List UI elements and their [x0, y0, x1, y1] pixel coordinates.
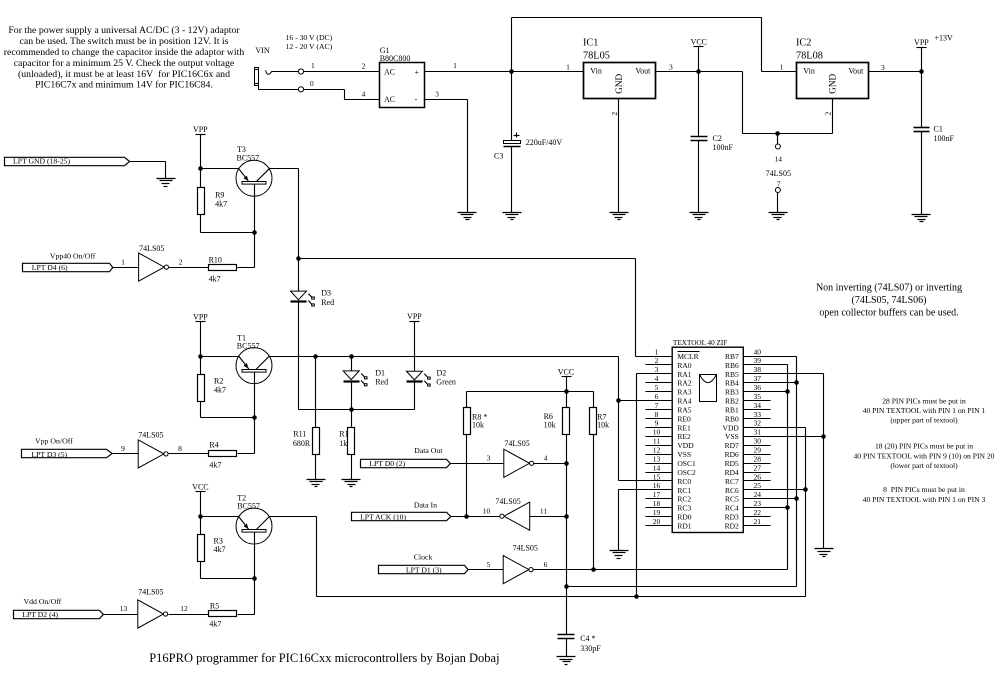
svg-text:4: 4: [544, 454, 548, 463]
svg-text:VPP: VPP: [407, 312, 422, 321]
svg-text:Non inverting (74LS07) or inve: Non inverting (74LS07) or inverting: [816, 283, 962, 294]
svg-text:2: 2: [179, 257, 183, 266]
svg-text:3: 3: [487, 454, 491, 463]
svg-text:LPT D2 (4): LPT D2 (4): [22, 610, 58, 619]
svg-text:78L05: 78L05: [583, 50, 610, 61]
svg-text:4k7: 4k7: [209, 275, 221, 284]
svg-text:9: 9: [121, 444, 125, 453]
svg-text:RA0: RA0: [677, 361, 691, 370]
svg-text:(lower part of textool): (lower part of textool): [890, 461, 958, 470]
svg-text:RD6: RD6: [725, 450, 739, 459]
svg-text:R11: R11: [293, 430, 306, 439]
svg-text:22: 22: [754, 508, 762, 517]
svg-text:(upper part of textool): (upper part of textool): [890, 416, 958, 425]
svg-text:40 PIN TEXTOOL with PIN 1 on P: 40 PIN TEXTOOL with PIN 1 on PIN 1: [863, 406, 986, 415]
svg-text:BC557: BC557: [237, 153, 260, 162]
svg-text:4k7: 4k7: [214, 386, 226, 395]
svg-text:37: 37: [754, 374, 762, 383]
svg-text:Data Out: Data Out: [414, 446, 443, 455]
svg-text:7: 7: [655, 401, 659, 410]
svg-text:RC3: RC3: [677, 504, 691, 513]
svg-text:12: 12: [653, 445, 661, 454]
svg-text:RD4: RD4: [725, 468, 739, 477]
svg-text:17: 17: [653, 490, 661, 499]
svg-text:16: 16: [653, 481, 661, 490]
svg-text:VCC: VCC: [192, 482, 208, 491]
svg-text:35: 35: [754, 392, 762, 401]
svg-text:VCC: VCC: [691, 37, 707, 46]
svg-text:GND: GND: [615, 73, 625, 93]
svg-text:VPP: VPP: [193, 125, 208, 134]
svg-text:Vdd On/Off: Vdd On/Off: [24, 597, 62, 606]
svg-text:MCLR: MCLR: [677, 352, 698, 361]
svg-text:recommended to change the capa: recommended to change the capacitor insi…: [4, 47, 245, 58]
svg-text:30: 30: [754, 437, 762, 446]
svg-text:11: 11: [653, 437, 660, 446]
svg-text:8: 8: [655, 410, 659, 419]
svg-text:100nF: 100nF: [713, 143, 734, 152]
svg-text:1k: 1k: [339, 439, 347, 448]
svg-text:31: 31: [754, 428, 762, 437]
svg-text:VPP: VPP: [193, 312, 208, 321]
svg-text:18 (20) PIN PICs must be put i: 18 (20) PIN PICs must be put in: [875, 442, 973, 451]
svg-text:RB3: RB3: [725, 388, 739, 397]
svg-text:VSS: VSS: [725, 432, 739, 441]
svg-text:LPT D1 (3): LPT D1 (3): [406, 566, 442, 575]
svg-text:21: 21: [754, 517, 762, 526]
svg-text:TEXTOOL 40 ZIF: TEXTOOL 40 ZIF: [673, 339, 727, 347]
svg-text:C3: C3: [494, 152, 503, 161]
svg-text:24: 24: [754, 490, 762, 499]
svg-text:RD0: RD0: [677, 513, 691, 522]
svg-text:3: 3: [435, 89, 439, 98]
svg-text:4: 4: [362, 89, 366, 98]
svg-text:78L08: 78L08: [796, 50, 823, 61]
svg-text:18: 18: [653, 499, 661, 508]
svg-text:28: 28: [754, 454, 762, 463]
svg-text:2: 2: [610, 112, 619, 116]
svg-text:RE2: RE2: [677, 432, 691, 441]
svg-text:D2: D2: [437, 368, 447, 377]
svg-text:2: 2: [824, 112, 833, 116]
svg-text:10: 10: [653, 428, 661, 437]
svg-text:7: 7: [777, 179, 781, 188]
svg-text:27: 27: [754, 463, 762, 472]
svg-text:4k7: 4k7: [214, 545, 226, 554]
svg-text:R5: R5: [210, 602, 219, 611]
svg-text:36: 36: [754, 383, 762, 392]
svg-text:R9: R9: [215, 191, 224, 200]
svg-text:13: 13: [120, 604, 128, 613]
svg-text:B80C800: B80C800: [380, 54, 411, 63]
svg-text:RB5: RB5: [725, 370, 739, 379]
svg-text:1: 1: [780, 63, 784, 72]
svg-text:R1: R1: [339, 430, 348, 439]
svg-text:3: 3: [881, 63, 885, 72]
svg-text:RB4: RB4: [725, 379, 739, 388]
svg-text:BC557: BC557: [237, 341, 260, 350]
svg-text:Data In: Data In: [414, 500, 437, 509]
svg-text:RB1: RB1: [725, 405, 739, 414]
svg-text:3: 3: [655, 365, 659, 374]
svg-text:can be used. The switch must b: can be used. The switch must be in posit…: [20, 36, 229, 47]
svg-text:38: 38: [754, 365, 762, 374]
svg-text:8 PIN PICs must be put in: 8 PIN PICs must be put in: [883, 485, 965, 494]
svg-text:4k7: 4k7: [209, 461, 221, 470]
svg-text:PIC16C7x and minimum 14V for P: PIC16C7x and minimum 14V for PIC16C84.: [35, 80, 213, 91]
svg-text:40: 40: [754, 347, 762, 356]
svg-text:6: 6: [655, 392, 659, 401]
svg-text:4k7: 4k7: [215, 200, 227, 209]
svg-text:Clock: Clock: [414, 553, 433, 562]
svg-text:10k: 10k: [472, 421, 484, 430]
svg-text:6: 6: [544, 560, 548, 569]
svg-text:220uF/40V: 220uF/40V: [526, 138, 563, 147]
svg-text:VCC: VCC: [558, 368, 574, 377]
svg-text:AC: AC: [384, 95, 395, 104]
svg-text:8: 8: [178, 444, 182, 453]
svg-text:LPT D4 (6): LPT D4 (6): [32, 263, 68, 272]
svg-text:RB0: RB0: [725, 414, 739, 423]
svg-text:10k: 10k: [544, 421, 556, 430]
svg-text:D3: D3: [321, 289, 331, 298]
svg-text:VDD: VDD: [677, 441, 694, 450]
svg-text:RD1: RD1: [677, 521, 691, 530]
svg-text:34: 34: [754, 401, 762, 410]
svg-text:74LS05: 74LS05: [513, 543, 538, 552]
svg-text:RB7: RB7: [725, 352, 739, 361]
svg-text:RC7: RC7: [725, 477, 739, 486]
svg-text:12: 12: [180, 604, 188, 613]
svg-text:RC5: RC5: [725, 495, 739, 504]
svg-text:16 - 30 V (DC): 16 - 30 V (DC): [286, 33, 333, 42]
svg-text:Vin: Vin: [590, 66, 602, 75]
svg-text:1: 1: [121, 257, 125, 266]
svg-text:15: 15: [653, 472, 661, 481]
svg-text:R10: R10: [209, 255, 222, 264]
svg-text:74LS05: 74LS05: [138, 588, 163, 597]
svg-text:Vin: Vin: [803, 66, 815, 75]
svg-text:-: -: [415, 95, 418, 104]
svg-text:3: 3: [669, 63, 673, 72]
svg-text:10k: 10k: [597, 421, 609, 430]
svg-text:(74LS05, 74LS06): (74LS05, 74LS06): [852, 295, 927, 306]
svg-text:40 PIN TEXTOOL with PIN 9 (10): 40 PIN TEXTOOL with PIN 9 (10) on PIN 20: [854, 451, 995, 460]
svg-text:RE1: RE1: [677, 423, 691, 432]
svg-text:39: 39: [754, 356, 762, 365]
svg-text:9: 9: [655, 419, 659, 428]
svg-text:OSC2: OSC2: [677, 468, 696, 477]
svg-text:VSS: VSS: [677, 450, 691, 459]
svg-text:C2: C2: [713, 134, 722, 143]
svg-text:+13V: +13V: [935, 34, 954, 43]
svg-text:74LS05: 74LS05: [138, 430, 163, 439]
svg-text:open collector buffers can be: open collector buffers can be used.: [819, 308, 958, 319]
svg-text:IC2: IC2: [796, 38, 811, 49]
svg-text:74LS05: 74LS05: [139, 244, 164, 253]
svg-text:1: 1: [655, 347, 659, 356]
svg-text:12 - 20 V (AC): 12 - 20 V (AC): [286, 42, 333, 51]
svg-text:RD2: RD2: [725, 521, 739, 530]
svg-text:19: 19: [653, 508, 661, 517]
svg-text:74LS05: 74LS05: [766, 169, 791, 178]
svg-text:2: 2: [655, 356, 659, 365]
svg-text:14: 14: [775, 155, 783, 164]
svg-text:C1: C1: [934, 125, 943, 134]
svg-text:Red: Red: [375, 378, 388, 387]
svg-text:Vout: Vout: [635, 66, 651, 75]
svg-text:RD7: RD7: [725, 441, 739, 450]
svg-text:C4 *: C4 *: [580, 634, 595, 643]
svg-text:RA5: RA5: [677, 405, 691, 414]
svg-text:(unloaded), it must be at leas: (unloaded), it must be at least 16V for …: [18, 69, 230, 80]
svg-text:26: 26: [754, 472, 762, 481]
svg-text:VDD: VDD: [723, 423, 740, 432]
svg-text:11: 11: [540, 506, 547, 515]
svg-text:0: 0: [310, 79, 314, 88]
svg-text:capacitor for a minimum 25 V.: capacitor for a minimum 25 V. Check the …: [14, 58, 235, 69]
svg-text:+: +: [414, 68, 419, 77]
svg-text:33: 33: [754, 410, 762, 419]
svg-text:1: 1: [311, 61, 315, 70]
svg-text:25: 25: [754, 481, 762, 490]
svg-text:74LS05: 74LS05: [495, 497, 520, 506]
svg-text:RB6: RB6: [725, 361, 739, 370]
svg-text:AC: AC: [384, 68, 395, 77]
svg-text:RE0: RE0: [677, 414, 691, 423]
svg-text:10: 10: [483, 506, 491, 515]
svg-text:LPT GND (18-25): LPT GND (18-25): [13, 157, 71, 166]
svg-text:40 PIN TEXTOOL with PIN 1 on P: 40 PIN TEXTOOL with PIN 1 on PIN 3: [863, 495, 986, 504]
svg-text:13: 13: [653, 454, 661, 463]
svg-text:RA2: RA2: [677, 379, 691, 388]
svg-text:Green: Green: [436, 378, 456, 387]
svg-text:RC2: RC2: [677, 495, 691, 504]
svg-text:29: 29: [754, 445, 762, 454]
svg-text:1: 1: [566, 63, 570, 72]
svg-text:VPP: VPP: [914, 38, 929, 47]
svg-text:74LS05: 74LS05: [504, 439, 529, 448]
svg-text:14: 14: [653, 463, 661, 472]
svg-text:4k7: 4k7: [209, 620, 221, 629]
svg-text:RC4: RC4: [725, 504, 739, 513]
svg-text:P16PRO programmer for PIC16Cxx: P16PRO programmer for PIC16Cxx microcont…: [149, 651, 499, 665]
svg-text:RC6: RC6: [725, 486, 739, 495]
svg-text:For the power supply a univers: For the power supply a universal AC/DC (…: [8, 25, 240, 36]
svg-text:Vpp On/Off: Vpp On/Off: [35, 437, 73, 446]
svg-text:5: 5: [655, 383, 659, 392]
svg-text:RD5: RD5: [725, 459, 739, 468]
svg-text:23: 23: [754, 499, 762, 508]
svg-text:RA3: RA3: [677, 388, 691, 397]
svg-text:LPT D3 (5): LPT D3 (5): [31, 450, 67, 459]
svg-text:RB2: RB2: [725, 397, 739, 406]
svg-text:IC1: IC1: [583, 38, 598, 49]
svg-text:330pF: 330pF: [580, 644, 601, 653]
svg-text:Red: Red: [321, 298, 334, 307]
svg-text:R2: R2: [214, 377, 223, 386]
svg-text:32: 32: [754, 419, 762, 428]
svg-text:680R: 680R: [293, 439, 311, 448]
svg-text:20: 20: [653, 517, 661, 526]
svg-text:VIN: VIN: [255, 46, 269, 55]
svg-text:5: 5: [487, 560, 491, 569]
svg-text:LPT ACK (10): LPT ACK (10): [360, 512, 406, 521]
svg-text:Vpp40 On/Off: Vpp40 On/Off: [50, 251, 96, 260]
svg-text:1: 1: [453, 61, 457, 70]
svg-text:Vout: Vout: [848, 66, 864, 75]
svg-text:RC0: RC0: [677, 477, 691, 486]
svg-text:OSC1: OSC1: [677, 459, 696, 468]
svg-text:RA4: RA4: [677, 397, 691, 406]
svg-text:28 PIN PICs must be put in: 28 PIN PICs must be put in: [882, 396, 966, 405]
svg-text:LPT D0 (2): LPT D0 (2): [369, 459, 405, 468]
svg-text:RC1: RC1: [677, 486, 691, 495]
svg-text:2: 2: [362, 61, 366, 70]
svg-text:GND: GND: [829, 73, 839, 93]
svg-text:100nF: 100nF: [934, 134, 955, 143]
svg-text:RA1: RA1: [677, 370, 691, 379]
svg-text:BC557: BC557: [237, 502, 260, 511]
svg-text:RD3: RD3: [725, 513, 739, 522]
svg-text:D1: D1: [375, 368, 385, 377]
svg-text:4: 4: [655, 374, 659, 383]
svg-text:R4: R4: [209, 441, 218, 450]
